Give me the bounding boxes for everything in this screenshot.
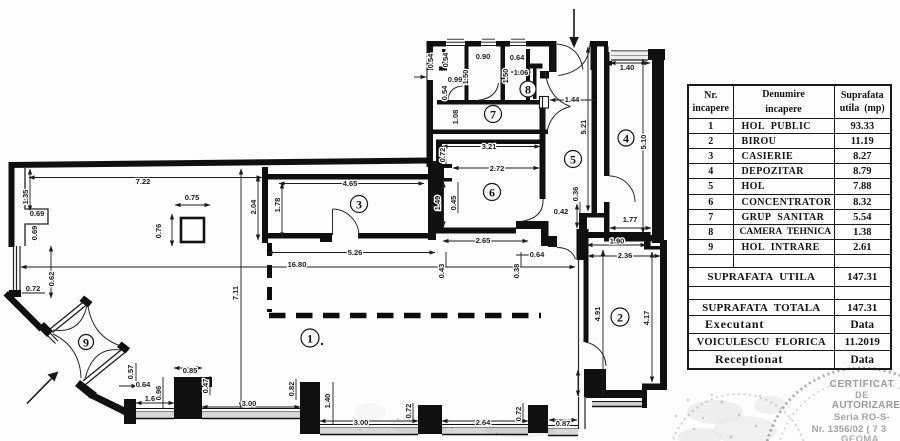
cap glazed wall 9 lower (117, 342, 130, 354)
wall room6 top (436, 140, 546, 145)
node room4 (618, 130, 634, 146)
glazed wall 9 lower (83, 346, 129, 385)
wall top-right entry step (590, 41, 608, 47)
wall room4 top corner right (648, 49, 665, 60)
pillar bottom 3 (300, 382, 320, 434)
svg-text:0.38: 0.38 (512, 264, 521, 279)
window sill bottom 2 (202, 409, 300, 419)
pillar bottom 5 (528, 405, 548, 433)
svg-text:1.35: 1.35 (21, 190, 30, 205)
wall entrance jamb right / hall5 right wall (591, 41, 598, 70)
stamp ring left faint (669, 394, 807, 441)
dim bottom 3.00b line (320, 420, 418, 422)
svg-text:1.50: 1.50 (501, 69, 510, 84)
wall room6 right (540, 139, 546, 199)
svg-text:CERTIFICAT: CERTIFICAT (830, 379, 895, 390)
stamp ring right inner (776, 380, 900, 441)
wall entrance jamb left (549, 41, 557, 72)
stamp speckles (359, 394, 761, 439)
dim bottom 3.00a line (202, 406, 300, 408)
svg-text:8: 8 (525, 83, 531, 97)
wall room6 left (436, 144, 452, 228)
svg-text:0.42: 0.42 (554, 207, 569, 216)
window lintel marks wing (447, 38, 525, 40)
glazed wall 9 upper (50, 299, 90, 333)
svg-text:6: 6 (489, 186, 495, 200)
wall cubicle partition b (465, 46, 469, 102)
svg-text:0.85: 0.85 (183, 366, 198, 375)
pillar bottom 4 (418, 405, 442, 434)
dim 0.43 line (445, 252, 447, 267)
window diagonal sidelight (41, 326, 59, 344)
svg-text:0.82: 0.82 (287, 382, 296, 397)
svg-text:0.96: 0.96 (154, 386, 163, 401)
svg-text:0.69: 0.69 (30, 209, 45, 218)
wall room4 bottom (604, 235, 657, 242)
room number circles (79, 81, 635, 350)
svg-text:AUTORIZARE: AUTORIZARE (832, 400, 900, 411)
svg-text:1: 1 (307, 332, 313, 346)
pillar bottom 1 (124, 399, 136, 424)
wall room2 bottom-right corner (642, 384, 667, 409)
svg-text:4.17: 4.17 (642, 311, 651, 326)
dim 0.45 line (457, 182, 459, 213)
dim 4.91 line (602, 250, 604, 396)
dim 4.65 line (279, 183, 424, 185)
dim 0.76 line (171, 214, 173, 246)
wall corridor7 jamb block (540, 71, 549, 79)
node room6 (484, 184, 501, 201)
dashed partition horizontal (269, 313, 541, 319)
node room7 (485, 106, 502, 123)
dim 0.75 line (175, 204, 210, 206)
windows wing top glazing (446, 42, 526, 45)
dim bottom 0.47 line (209, 376, 211, 395)
svg-text:1.40: 1.40 (323, 394, 332, 409)
door arc hall5 to room1 (557, 248, 576, 260)
svg-text:2.04: 2.04 (249, 199, 258, 214)
wall top main strip (9, 158, 429, 169)
dim 0.87 vertical tick (577, 370, 579, 396)
wall room2 top step (644, 232, 664, 250)
window sill bottom 1 (136, 409, 174, 419)
svg-text:7: 7 (490, 108, 496, 122)
dim 0.99 line (414, 76, 426, 78)
wall cubicle partition c (501, 46, 506, 102)
svg-text:2.65: 2.65 (476, 236, 491, 245)
wall room3 bottom right segment (358, 233, 436, 239)
svg-text:0.64: 0.64 (136, 380, 151, 389)
wall corridor7 bottom upper band (428, 130, 548, 135)
dim 1.44 line (550, 99, 597, 101)
node room9 (79, 335, 94, 350)
wall room2 bottom-left block (584, 369, 606, 397)
svg-text:0.72: 0.72 (26, 284, 41, 293)
svg-text:DE: DE (855, 390, 869, 400)
wall block vestibule lower-left (75, 380, 97, 399)
wall room2 right (660, 240, 667, 390)
svg-text:0.76: 0.76 (154, 224, 163, 239)
door room3 leaf and arc (333, 209, 360, 236)
svg-text:0.54: 0.54 (441, 52, 450, 67)
wall room6 bottom (436, 228, 516, 234)
svg-text:0.36: 0.36 (571, 187, 580, 202)
dim 7.22 line (29, 177, 262, 179)
door arc entrance left leaf (557, 44, 583, 70)
wall hall5 bottom left of door (548, 236, 557, 247)
svg-text:0.54: 0.54 (440, 85, 449, 100)
dim 1.78 line (281, 183, 283, 238)
wall cubicle partition d (526, 49, 530, 101)
svg-text:5.21: 5.21 (579, 120, 588, 135)
svg-text:0.87: 0.87 (556, 419, 571, 428)
svg-text:Seria RO-S-: Seria RO-S- (834, 412, 890, 423)
node room8 (520, 81, 536, 97)
svg-text:3: 3 (356, 198, 362, 212)
node room2 (611, 308, 629, 326)
stamp faint blobs left (354, 396, 786, 441)
svg-text:3.21: 3.21 (482, 142, 497, 151)
dim 7.11 line (240, 169, 242, 408)
window sill room2 bottom (592, 402, 642, 407)
svg-text:0.72: 0.72 (404, 404, 413, 419)
node room3 (351, 196, 368, 213)
cap glazed wall 9 upper (80, 296, 93, 308)
svg-text:16.80: 16.80 (288, 260, 307, 269)
svg-text:9: 9 (83, 336, 89, 350)
svg-text:1.44: 1.44 (565, 95, 580, 104)
dim 0.72 room6 line (445, 146, 447, 164)
dim bottom 1.66 line (136, 402, 174, 404)
wall diagonal exterior bottom-left (4, 291, 45, 332)
svg-text:3.00: 3.00 (242, 399, 257, 408)
wall interior niche top-left (25, 168, 48, 246)
dim bottom 2.64 line (442, 420, 528, 422)
wall room6 bottom step (516, 221, 542, 229)
window reveal right nook (579, 397, 586, 429)
window left bay (14, 246, 21, 291)
dim 2.72 line (453, 167, 539, 169)
dim 0.38 line (520, 252, 522, 267)
dim 2.65 line (443, 240, 528, 242)
wall corner block vestibule left (38, 322, 53, 337)
svg-text:0.62: 0.62 (47, 272, 56, 287)
wall room3 top (268, 174, 428, 180)
arrow entrance vestibule (27, 378, 52, 404)
wall block chimney hall5 (541, 221, 549, 246)
dim bottom 0.96 line (162, 377, 164, 408)
wall connect to bottom sill (88, 392, 124, 415)
dim 2.36 line (588, 255, 660, 257)
wall room3 bottom step block (320, 233, 332, 242)
svg-text:1.40: 1.40 (620, 63, 635, 72)
svg-text:0.43: 0.43 (437, 264, 446, 279)
svg-text:0.47: 0.47 (201, 379, 210, 394)
niche wing left wall (428, 70, 435, 80)
stamp ring right outer (764, 368, 900, 441)
node room1 (301, 329, 319, 347)
dim 1.35 line (29, 169, 31, 211)
dim 0.64 hall line (516, 254, 536, 256)
wall room2 bottom band (586, 390, 644, 398)
wall hall5 bottom-right corner (587, 213, 604, 218)
svg-text:0.54: 0.54 (426, 53, 435, 68)
door arcs vestibule 9 butterfly (53, 305, 121, 379)
pillar bottom 2 (174, 377, 212, 419)
svg-text:1.49: 1.49 (433, 196, 442, 211)
door arc room4 (610, 176, 636, 202)
dashed partition vertical (267, 243, 272, 312)
wall room3 left (262, 167, 268, 243)
wall room8 top-right (530, 64, 543, 69)
stamp area (354, 368, 900, 441)
dim 0.72 left line (22, 292, 45, 294)
svg-text:2.72: 2.72 (490, 164, 505, 173)
wall room8 right (533, 64, 537, 99)
wall cubicle partition a (442, 49, 446, 68)
door arcs corridor7 lobby (545, 72, 571, 132)
dim 2.04 line (257, 176, 259, 240)
svg-text:1.06: 1.06 (514, 68, 529, 77)
svg-text:GEOMA: GEOMA (841, 434, 879, 441)
svg-text:1.77: 1.77 (623, 215, 638, 224)
arrow entrance top (573, 9, 575, 38)
svg-text:0.72: 0.72 (514, 407, 523, 422)
door arc entrance right leaf (559, 43, 591, 76)
svg-text:5: 5 (570, 153, 576, 167)
column square room1 (181, 218, 204, 242)
wall room3 right / room6 left band (428, 161, 436, 240)
door arc room6 (521, 199, 543, 222)
svg-text:2.64: 2.64 (476, 418, 491, 427)
node room5 (565, 151, 582, 168)
wall room3 bottom left segment (267, 233, 320, 239)
svg-text:4: 4 (623, 132, 629, 146)
dim bottom 0.72b line (522, 403, 524, 421)
window sill bottom 4 (320, 425, 418, 435)
dim 0.62 line (50, 246, 52, 298)
fixture sink hall5 (540, 97, 549, 109)
dim 5.26 line (267, 252, 435, 254)
svg-text:0.75: 0.75 (185, 193, 200, 202)
wall wing left vertical (427, 41, 434, 167)
wall hall5 left (540, 100, 546, 140)
dim 0.36 line (579, 202, 581, 213)
dim bottom 1.40 line (332, 382, 334, 424)
dim 0.42 line (576, 204, 578, 228)
window room4 top (611, 51, 648, 60)
dim 1.40 room4 line (610, 62, 650, 64)
dim 4.17 line (651, 252, 653, 382)
svg-text:0.64: 0.64 (510, 53, 525, 62)
dim 3.21 line (442, 146, 540, 148)
svg-text:0.57: 0.57 (126, 365, 135, 380)
wall block below left window (9, 290, 21, 297)
dim 1.77 line (610, 227, 651, 229)
svg-text:0.90: 0.90 (476, 52, 491, 61)
door arc room2 (585, 342, 606, 366)
table suprafete (687, 84, 892, 370)
dim bottom 0.85 line (174, 367, 202, 369)
svg-text:1.78: 1.78 (273, 198, 282, 213)
svg-text:0.45: 0.45 (449, 196, 458, 211)
dim 5.21 line (587, 47, 589, 211)
window sill bottom 6 (548, 426, 578, 436)
dim 1.49 line (443, 182, 445, 227)
svg-text:1.08: 1.08 (451, 110, 460, 125)
wall cubicle row bottom (437, 100, 466, 105)
dim bottom 0.87 line (549, 419, 577, 421)
svg-text:0.64: 0.64 (530, 250, 545, 259)
svg-text:7.22: 7.22 (136, 177, 151, 186)
wall left exterior (9, 162, 15, 247)
dimension lines (21, 47, 660, 424)
window sill bottom 5 (442, 425, 528, 435)
dim 5.10 line (642, 59, 644, 233)
dim 1.06 line (511, 71, 531, 73)
dim bottom 0.64 line (119, 385, 137, 387)
svg-text:0.72: 0.72 (438, 148, 447, 163)
wall wing top with windows (427, 41, 550, 47)
wall room4 left (604, 52, 610, 176)
wall room2 top (584, 232, 648, 238)
svg-text:5.10: 5.10 (639, 135, 648, 150)
svg-text:7.11: 7.11 (231, 286, 240, 300)
dimension texts (21, 52, 651, 428)
wall room4 right exterior (652, 49, 664, 243)
svg-text:5.26: 5.26 (348, 248, 363, 257)
svg-text:2: 2 (617, 311, 623, 325)
svg-text:1.50: 1.50 (461, 70, 470, 85)
dim 1.90 line (587, 244, 646, 246)
dim bottom 0.82 line (295, 379, 297, 400)
svg-text:0.69: 0.69 (30, 226, 39, 241)
wall room2 left (584, 229, 589, 342)
svg-text:4.91: 4.91 (593, 307, 602, 322)
svg-text:4.65: 4.65 (343, 179, 358, 188)
svg-text:1.90: 1.90 (610, 237, 625, 246)
svg-text:2.36: 2.36 (618, 251, 633, 260)
dim bottom 0.57 line (135, 363, 137, 381)
door arcs cubicles (448, 83, 499, 101)
dim 16.80 line (21, 266, 575, 268)
wall step left of room2 top (577, 213, 588, 260)
dim bottom 0.72a line (412, 403, 414, 421)
